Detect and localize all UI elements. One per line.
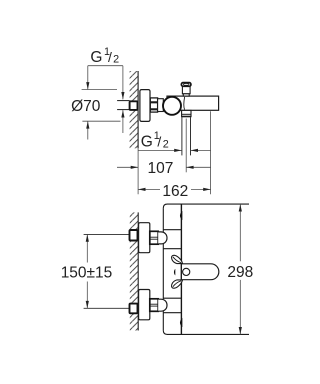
wall face extension line (for 107/162) [137,148,139,194]
lever rear ear (top) [172,255,183,263]
escutcheon (side view) [140,90,150,122]
svg-text:162: 162 [162,183,188,200]
107: right line + arrow [186,166,210,168]
lower supply pipe (front view) [84,307,130,309]
G1/2 top: lower shaft + up arrow [122,110,124,133]
lower clip crescent on body edge [180,319,182,326]
svg-text:/: / [108,49,112,65]
dimension Ø70: extension lines [82,89,117,91]
svg-text:G: G [141,133,153,150]
body joint lines [163,229,181,231]
diverter knob foot [183,94,189,96]
wall face line (front view) [137,212,139,330]
diverter knob cap [181,83,191,87]
svg-text:150±15: 150±15 [61,265,113,282]
body left edge segments [162,208,164,232]
svg-text:298: 298 [227,264,253,281]
square union nut at wall (side view) [130,101,138,110]
Ø70: lower shaft + up arrow [87,121,89,139]
connector cylinder (side view) [158,99,164,112]
dimension 162: line + arrows [138,188,160,190]
diverter knob stem (side view) [182,86,190,93]
lever pivot circle [183,268,190,275]
body column bottom edge + 298 bottom extension [163,330,249,334]
svg-text:107: 107 [147,160,173,177]
upper escutcheon (front view) [139,223,150,253]
svg-text:2: 2 [113,54,119,66]
lower square union nut [130,304,138,314]
lever rear ear (bottom) [172,280,183,288]
svg-text:G: G [90,49,102,66]
inlet pipe (side view) [117,100,130,102]
body right edge [180,204,182,334]
wall hatching (side view) [130,71,139,148]
diverter knob cap top face [183,84,189,86]
outlet centerline [185,119,187,173]
svg-text:2: 2 [163,138,169,150]
svg-text:/: / [157,133,161,149]
upper square union nut [130,230,138,241]
upper hex nut (front view) [150,231,158,244]
G1/2 top: upper shaft + down arrow [122,66,124,100]
body/handle intersection arc [183,97,186,110]
upper clip crescent on body edge [180,212,182,219]
upper check-valve boss [158,232,167,244]
dimension 107: left line + arrow [117,166,138,168]
thermostat body (side view) [167,96,219,110]
body column top edge + 298 top extension [163,204,249,208]
G1/2 bottom: left line + right arrow [138,149,182,151]
hex connection nut (side view) [150,98,157,112]
temperature handle (side view, circle) [163,97,181,115]
G1/2 top: underline [88,65,123,67]
lever handle (front view) [181,264,218,280]
extension line at body front edge (162) [210,111,212,194]
lower escutcheon (front view) [139,290,150,320]
wall hatching (front view) [130,212,138,330]
G1/2 bottom: right line + left arrow [191,149,211,151]
lever slot mark [174,269,175,276]
upper supply pipe (front view) [84,233,130,235]
shower outlet collar [182,110,191,116]
lower hex nut (front view) [150,299,158,312]
lower check-valve boss [158,299,167,311]
svg-text:Ø70: Ø70 [71,98,101,115]
Ø70: upper shaft + down arrow [87,66,89,90]
shower outlet nipple lines [181,117,183,155]
dimension 298: shafts + arrows [239,204,241,261]
dimension 150±15: shafts + arrows [86,234,88,262]
wall face line [137,71,139,148]
